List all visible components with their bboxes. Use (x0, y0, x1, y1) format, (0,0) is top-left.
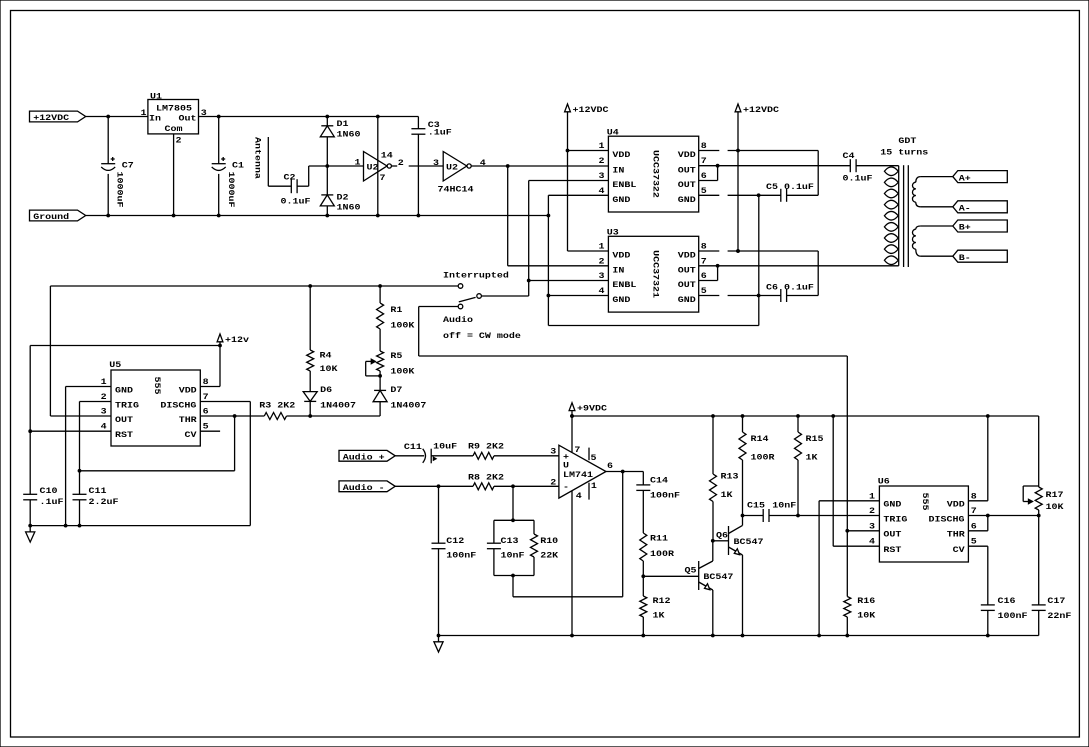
svg-text:2: 2 (101, 392, 107, 402)
svg-text:5: 5 (591, 453, 597, 463)
svg-text:1: 1 (591, 481, 598, 491)
svg-text:1N4007: 1N4007 (320, 400, 356, 410)
svg-text:2: 2 (599, 256, 605, 266)
svg-text:U1: U1 (150, 91, 163, 101)
svg-text:THR: THR (179, 415, 198, 425)
svg-text:2: 2 (599, 156, 605, 166)
svg-text:BC547: BC547 (734, 537, 764, 547)
svg-text:15 turns: 15 turns (880, 147, 928, 157)
svg-text:3: 3 (599, 171, 606, 181)
svg-text:GND: GND (612, 195, 631, 205)
svg-text:Audio +: Audio + (343, 452, 385, 462)
svg-text:0.1uF: 0.1uF (281, 196, 311, 206)
svg-text:C12: C12 (446, 536, 464, 546)
svg-text:U6: U6 (878, 476, 890, 486)
svg-text:0.1uF: 0.1uF (843, 173, 873, 183)
svg-text:6: 6 (607, 461, 613, 471)
svg-text:1: 1 (599, 241, 606, 251)
svg-text:2: 2 (398, 158, 404, 168)
svg-text:C17: C17 (1047, 596, 1065, 606)
svg-text:100K: 100K (390, 366, 415, 376)
svg-text:4: 4 (869, 537, 876, 547)
svg-text:1K: 1K (721, 490, 734, 500)
svg-text:10K: 10K (857, 610, 876, 620)
svg-text:VDD: VDD (612, 150, 631, 160)
svg-text:1: 1 (869, 491, 876, 501)
svg-text:U2: U2 (367, 162, 379, 172)
svg-text:OUT: OUT (678, 180, 697, 190)
svg-text:6: 6 (701, 271, 707, 281)
svg-text:R9 2K2: R9 2K2 (468, 441, 504, 451)
svg-text:10K: 10K (320, 364, 339, 374)
svg-text:GND: GND (678, 195, 697, 205)
svg-text:2.2uF: 2.2uF (89, 497, 119, 507)
svg-text:1N60: 1N60 (337, 202, 361, 212)
svg-text:100nF: 100nF (998, 611, 1028, 621)
svg-text:7: 7 (203, 392, 209, 402)
svg-text:.1uF: .1uF (428, 127, 452, 137)
svg-text:GDT: GDT (898, 136, 917, 146)
svg-text:100nF: 100nF (446, 550, 476, 560)
svg-text:74HC14: 74HC14 (438, 184, 475, 194)
svg-text:1K: 1K (653, 610, 666, 620)
svg-text:THR: THR (947, 529, 966, 539)
svg-text:A+: A+ (959, 173, 972, 183)
svg-text:C4: C4 (843, 151, 856, 161)
svg-text:R4: R4 (320, 350, 333, 360)
svg-text:B-: B- (959, 253, 971, 263)
svg-text:8: 8 (701, 141, 707, 151)
svg-text:A-: A- (959, 203, 971, 213)
svg-text:100K: 100K (390, 320, 415, 330)
svg-text:8: 8 (971, 491, 977, 501)
svg-text:10nF: 10nF (501, 550, 525, 560)
svg-text:off = CW mode: off = CW mode (443, 331, 521, 341)
svg-text:3: 3 (101, 406, 108, 416)
svg-text:VDD: VDD (179, 385, 198, 395)
svg-text:100R: 100R (751, 452, 776, 462)
svg-text:C11: C11 (89, 486, 108, 496)
svg-text:4: 4 (599, 286, 606, 296)
svg-text:22nF: 22nF (1047, 611, 1071, 621)
svg-text:10K: 10K (1046, 502, 1065, 512)
svg-text:1: 1 (599, 141, 606, 151)
svg-text:R17: R17 (1046, 490, 1064, 500)
svg-text:1N60: 1N60 (337, 129, 361, 139)
svg-text:C16: C16 (998, 596, 1016, 606)
svg-text:CV: CV (185, 430, 198, 440)
svg-text:TRIG: TRIG (883, 514, 908, 524)
svg-text:Q5: Q5 (685, 565, 697, 575)
svg-text:5: 5 (701, 286, 707, 296)
svg-text:BC547: BC547 (703, 572, 733, 582)
svg-text:R16: R16 (857, 596, 875, 606)
svg-text:OUT: OUT (678, 165, 697, 175)
svg-text:CV: CV (953, 545, 966, 555)
svg-text:R3 2K2: R3 2K2 (259, 400, 295, 410)
svg-text:14: 14 (381, 150, 394, 160)
svg-text:C2: C2 (284, 172, 296, 182)
svg-text:555: 555 (920, 493, 930, 511)
svg-text:GND: GND (678, 295, 697, 305)
svg-text:B+: B+ (959, 223, 972, 233)
svg-text:-: - (563, 482, 569, 492)
svg-text:3: 3 (201, 108, 208, 118)
svg-text:R10: R10 (540, 536, 558, 546)
svg-text:RST: RST (115, 430, 134, 440)
svg-text:R13: R13 (721, 471, 740, 481)
svg-text:OUT: OUT (678, 280, 697, 290)
svg-text:ENBL: ENBL (612, 180, 636, 190)
svg-text:7: 7 (380, 173, 386, 183)
svg-text:UCC37322: UCC37322 (651, 150, 661, 198)
svg-text:U4: U4 (607, 127, 620, 137)
svg-text:R15: R15 (806, 434, 824, 444)
svg-text:C6 0.1uF: C6 0.1uF (766, 282, 814, 292)
svg-text:OUT: OUT (678, 265, 697, 275)
svg-text:4: 4 (480, 158, 487, 168)
svg-text:UCC37321: UCC37321 (651, 250, 661, 298)
svg-text:Antenna: Antenna (253, 137, 263, 179)
svg-text:ENBL: ENBL (612, 280, 636, 290)
svg-text:C7: C7 (122, 160, 134, 170)
svg-text:+9VDC: +9VDC (577, 404, 608, 414)
svg-text:3: 3 (599, 271, 606, 281)
svg-text:VDD: VDD (678, 251, 697, 261)
svg-text:R14: R14 (751, 434, 770, 444)
svg-text:7: 7 (701, 156, 707, 166)
svg-text:D2: D2 (337, 192, 349, 202)
svg-text:Out: Out (179, 113, 197, 123)
svg-text:Audio: Audio (443, 315, 474, 325)
svg-text:Com: Com (165, 124, 184, 134)
svg-text:6: 6 (203, 406, 209, 416)
svg-text:R1: R1 (390, 305, 403, 315)
svg-text:8: 8 (203, 377, 209, 387)
svg-text:Audio -: Audio - (343, 483, 385, 493)
svg-text:DISCHG: DISCHG (929, 514, 966, 524)
svg-text:OUT: OUT (115, 415, 134, 425)
svg-text:LM7805: LM7805 (156, 103, 192, 113)
svg-text:5: 5 (971, 537, 977, 547)
svg-text:GND: GND (612, 295, 631, 305)
svg-text:1N4007: 1N4007 (390, 400, 426, 410)
svg-text:RST: RST (883, 545, 902, 555)
svg-text:VDD: VDD (678, 150, 697, 160)
svg-text:OUT: OUT (883, 529, 902, 539)
svg-text:2: 2 (869, 506, 875, 516)
svg-text:R12: R12 (653, 596, 671, 606)
svg-text:D1: D1 (337, 119, 350, 129)
svg-text:Ground: Ground (33, 212, 69, 222)
svg-text:IN: IN (612, 265, 624, 275)
svg-text:GND: GND (883, 499, 902, 509)
svg-text:7: 7 (574, 445, 580, 455)
svg-text:5: 5 (701, 186, 707, 196)
svg-text:R5: R5 (390, 351, 402, 361)
svg-text:C13: C13 (501, 536, 520, 546)
svg-text:3: 3 (550, 446, 557, 456)
svg-text:3: 3 (869, 521, 876, 531)
svg-text:100nF: 100nF (650, 490, 680, 500)
svg-text:TRIG: TRIG (115, 400, 140, 410)
svg-text:4: 4 (599, 186, 606, 196)
svg-text:22K: 22K (540, 550, 559, 560)
svg-text:6: 6 (701, 171, 707, 181)
svg-text:U2: U2 (446, 162, 458, 172)
svg-text:1000uF: 1000uF (115, 172, 125, 208)
svg-text:VDD: VDD (612, 251, 631, 261)
svg-text:3: 3 (433, 158, 440, 168)
svg-text:+12VDC: +12VDC (743, 105, 780, 115)
svg-text:R11: R11 (650, 533, 669, 543)
svg-text:R8 2K2: R8 2K2 (468, 472, 504, 482)
svg-text:Q6: Q6 (716, 530, 728, 540)
svg-text:U: U (563, 460, 569, 470)
svg-text:+12VDC: +12VDC (33, 113, 70, 123)
svg-text:+12v: +12v (225, 335, 250, 345)
svg-text:7: 7 (971, 506, 977, 516)
svg-text:Interrupted: Interrupted (443, 270, 509, 280)
svg-text:+12VDC: +12VDC (573, 105, 610, 115)
svg-text:10uF: 10uF (433, 441, 457, 451)
svg-text:2: 2 (176, 135, 182, 145)
svg-text:1000uF: 1000uF (226, 172, 236, 208)
svg-text:D7: D7 (390, 385, 402, 395)
svg-text:4: 4 (576, 491, 583, 501)
svg-text:1: 1 (355, 157, 362, 167)
svg-text:555: 555 (152, 377, 162, 395)
svg-text:C11: C11 (404, 442, 423, 452)
svg-text:1: 1 (141, 108, 148, 118)
svg-text:C5 0.1uF: C5 0.1uF (766, 182, 814, 192)
svg-text:4: 4 (101, 422, 108, 432)
svg-text:C15: C15 (747, 500, 765, 510)
svg-text:VDD: VDD (947, 499, 966, 509)
svg-text:10nF: 10nF (772, 500, 796, 510)
svg-text:.1uF: .1uF (40, 497, 64, 507)
svg-text:7: 7 (701, 256, 707, 266)
svg-text:GND: GND (115, 385, 134, 395)
svg-text:In: In (149, 113, 161, 123)
svg-text:100R: 100R (650, 549, 675, 559)
svg-text:5: 5 (203, 422, 209, 432)
svg-text:C14: C14 (650, 475, 669, 485)
svg-text:LM741: LM741 (563, 470, 594, 480)
svg-text:IN: IN (612, 165, 624, 175)
svg-text:U5: U5 (109, 360, 121, 370)
svg-text:6: 6 (971, 521, 977, 531)
svg-text:U3: U3 (607, 227, 620, 237)
svg-text:2: 2 (550, 477, 556, 487)
svg-text:D6: D6 (320, 385, 332, 395)
svg-text:C10: C10 (40, 486, 58, 496)
svg-text:1: 1 (101, 377, 108, 387)
svg-text:C1: C1 (232, 160, 245, 170)
svg-text:DISCHG: DISCHG (160, 400, 197, 410)
svg-text:8: 8 (701, 241, 707, 251)
svg-text:1K: 1K (806, 452, 819, 462)
